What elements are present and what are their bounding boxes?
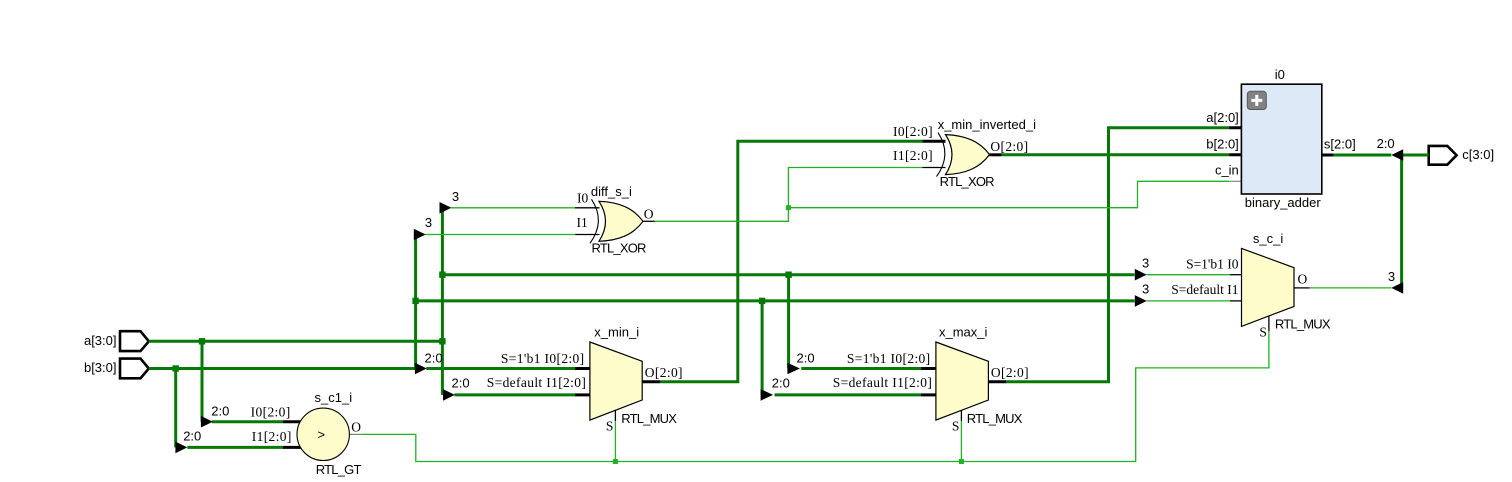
pin stub diff_s_i I1 [575,234,600,236]
pin stub adder c_in [1229,180,1256,182]
pin stub adder b [1229,153,1256,156]
mux s_c_i RTL_MUX [1171,231,1331,340]
junction s_c1 net x_min S [613,459,618,464]
wire GT output net s_c1 [361,331,1269,462]
pin stub x_max O [988,380,1006,383]
bus tap a[3] to diff_s_i I0 [440,189,460,214]
junction b-bus to GT riser [173,365,179,371]
pin stub GT I1 [283,446,301,449]
wire s_c_i output net [1310,287,1392,289]
wire s_c_i I0 net [1147,274,1231,276]
svg-text:binary_adder: binary_adder [1245,195,1322,210]
svg-text:2:0: 2:0 [425,350,443,365]
svg-text:2:0: 2:0 [211,404,229,419]
svg-text:s_c_i: s_c_i [1253,231,1283,246]
svg-text:s_c1_i: s_c1_i [315,390,353,405]
svg-text:I1: I1 [577,215,588,230]
svg-text:I0[2:0]: I0[2:0] [251,404,291,419]
svg-text:S=1'b1 I0[2:0]: S=1'b1 I0[2:0] [501,351,585,366]
svg-text:RTL_MUX: RTL_MUX [967,411,1023,426]
pin stub s_c_i O [1294,287,1310,289]
svg-text:a[2:0]: a[2:0] [1206,110,1239,125]
svg-text:b[2:0]: b[2:0] [1206,137,1239,152]
pin stub GT O [349,433,361,435]
wire b-bus extension horizontal [416,299,1135,302]
xor gate x_min_inverted_i RTL_XOR [893,117,1036,189]
wire diff_s_i I1 net b[3] [425,234,575,236]
bus tap s_c_i O into c[3] [1388,269,1403,294]
bus tap b[3] to diff_s_i I1 [414,215,432,240]
wire b-ext riser to x_max I1 [761,301,764,395]
comparator U s_c1_i RTL_GT [251,390,362,477]
junction a-bus to GT riser [199,338,205,344]
svg-text:S: S [606,418,614,433]
wire GT I1 b[2:0] [187,446,283,449]
wire b[2:0] to x_min I0 [426,367,575,370]
junction s_c1 net x_max S [959,459,964,464]
pin stub x_min_inverted I0 [923,140,946,143]
svg-text:O[2:0]: O[2:0] [990,139,1028,154]
wire adder s to c-bus tap [1333,154,1391,157]
svg-text:I1[2:0]: I1[2:0] [252,429,292,444]
input port b[3:0] [84,359,149,379]
svg-text:s[2:0]: s[2:0] [1324,137,1356,152]
wire diff_s net branch to adder c_in [788,181,1229,207]
pin stub x_max I1 [921,393,936,396]
svg-text:c[3:0]: c[3:0] [1462,147,1494,162]
pin stub x_min S [614,410,616,421]
wire a-bus extension horizontal [442,273,1134,276]
wire diff_s_i I0 net a[3] [451,207,575,209]
svg-text:S=default I1: S=default I1 [1171,282,1238,297]
wire a[2:0] to x_min I1 [454,393,575,396]
svg-text:3: 3 [452,189,459,204]
svg-text:RTL_XOR: RTL_XOR [592,241,647,256]
bus tap b[2:0] to x_max I1 [761,376,790,401]
pin stub x_min_inverted I1 [923,167,946,169]
pin stub adder s [1308,154,1334,157]
svg-text:2:0: 2:0 [1377,136,1395,151]
svg-text:S: S [952,418,960,433]
wire x_min S drop [614,421,616,462]
svg-text:>: > [318,427,326,442]
svg-text:O: O [1298,271,1308,286]
mux x_max_i RTL_MUX [833,325,1029,434]
wire a-bus horizontal from port a [149,340,444,343]
pin stub s_c_i S [1268,316,1270,331]
svg-text:2:0: 2:0 [452,376,470,391]
wire x_max output to binary_adder a [1006,128,1229,382]
junction a-ext to x_max riser [785,272,791,278]
junction a-ext at main riser [439,272,445,278]
wire GT I0 a[2:0] [212,420,283,423]
pin stub x_min O [642,380,660,383]
bus tap b[2:0] to GT I1 [175,429,201,454]
pin stub adder a [1229,126,1256,129]
wire x_min_inverted output to binary_adder b [1002,153,1230,156]
svg-text:a[3:0]: a[3:0] [84,333,117,348]
svg-text:x_min_inverted_i: x_min_inverted_i [938,117,1036,132]
wire x_max S drop [960,421,962,462]
svg-text:O: O [351,420,361,435]
svg-text:O[2:0]: O[2:0] [645,365,683,380]
svg-text:x_max_i: x_max_i [939,325,988,340]
junction b-ext to x_max riser [759,298,765,304]
svg-text:3: 3 [1388,269,1395,284]
pin stub diff_s_i O [643,220,655,222]
svg-text:2:0: 2:0 [772,376,790,391]
wire a[2:0] to x_max I0 [801,367,921,370]
wire a-ext riser to x_max I0 [787,275,790,369]
bus tap adder s[2:0] into c-bus [1377,136,1404,161]
svg-text:S=default I1[2:0]: S=default I1[2:0] [833,375,932,390]
svg-text:2:0: 2:0 [183,429,201,444]
bus tap b[2:0] to x_min I0 [415,350,443,374]
wire c-bus to output port [1402,154,1429,157]
pin stub x_min I1 [575,393,590,396]
bus tap a[2:0] to x_max I0 [787,350,814,374]
svg-text:S: S [1259,325,1267,340]
wire b riser to RTL_GT I1 [174,369,177,448]
bus tap a[2:0] to GT I0 [201,404,229,428]
xor gate diff_s_i RTL_XOR [577,184,654,256]
pin stub GT I0 [283,420,301,423]
svg-text:O: O [644,206,654,221]
pin stub diff_s_i I0 [575,207,600,209]
block i0 binary_adder [1206,67,1355,210]
pin stub s_c_i I1 [1230,300,1242,302]
svg-text:x_min_i: x_min_i [594,325,639,340]
junction a-bus to main riser [439,338,445,344]
svg-text:c_in: c_in [1215,162,1239,177]
svg-text:RTL_MUX: RTL_MUX [621,411,677,426]
wire diff_s_i output net to x_min_inverted I1 [655,168,923,222]
bus tap a[3] to s_c_i I0 [1135,256,1149,281]
svg-text:RTL_MUX: RTL_MUX [1275,316,1331,331]
pin stub x_min_inverted O [990,153,1002,156]
svg-text:S=1'b1 I0: S=1'b1 I0 [1186,257,1239,272]
wire c-bus riser [1400,155,1403,288]
wire b[2:0] to x_max I1 [775,393,922,396]
pin stub s_c_i I0 [1230,274,1242,276]
wire x_min output to x_min_inverted I0 [660,141,922,381]
bus tap b[3] to s_c_i I1 [1135,282,1149,307]
svg-text:I1[2:0]: I1[2:0] [893,148,933,163]
svg-text:3: 3 [1142,256,1149,271]
wire s_c_i I1 net [1147,300,1231,302]
svg-text:I0[2:0]: I0[2:0] [893,124,933,139]
svg-text:S=1'b1 I0[2:0]: S=1'b1 I0[2:0] [847,351,931,366]
svg-text:diff_s_i: diff_s_i [591,184,632,199]
mux x_min_i RTL_MUX [487,325,683,434]
wire b-bus riser main [414,235,417,369]
junction diff_s net c_in branch [786,205,791,210]
wire a riser to RTL_GT I0 [201,341,204,421]
pin stub x_min I0 [575,367,590,370]
svg-text:3: 3 [1142,282,1149,297]
svg-text:2:0: 2:0 [797,350,815,365]
svg-text:S=default I1[2:0]: S=default I1[2:0] [487,375,586,390]
wire a-bus riser main [441,208,444,395]
svg-text:i0: i0 [1275,67,1285,82]
svg-text:3: 3 [425,215,432,230]
bus tap a[2:0] to x_min I1 [443,376,470,401]
svg-text:RTL_XOR: RTL_XOR [940,174,995,189]
output port c[3:0] [1429,146,1494,165]
pin stub x_max I0 [921,367,936,370]
pin stub x_max S [960,410,962,421]
input port a[3:0] [84,331,149,351]
svg-text:I0: I0 [577,191,588,206]
svg-text:RTL_GT: RTL_GT [316,462,362,477]
svg-text:b[3:0]: b[3:0] [84,360,117,375]
junction b-ext at main riser [412,298,418,304]
svg-text:O[2:0]: O[2:0] [991,365,1029,380]
wire b-bus horizontal from port b [149,367,417,370]
